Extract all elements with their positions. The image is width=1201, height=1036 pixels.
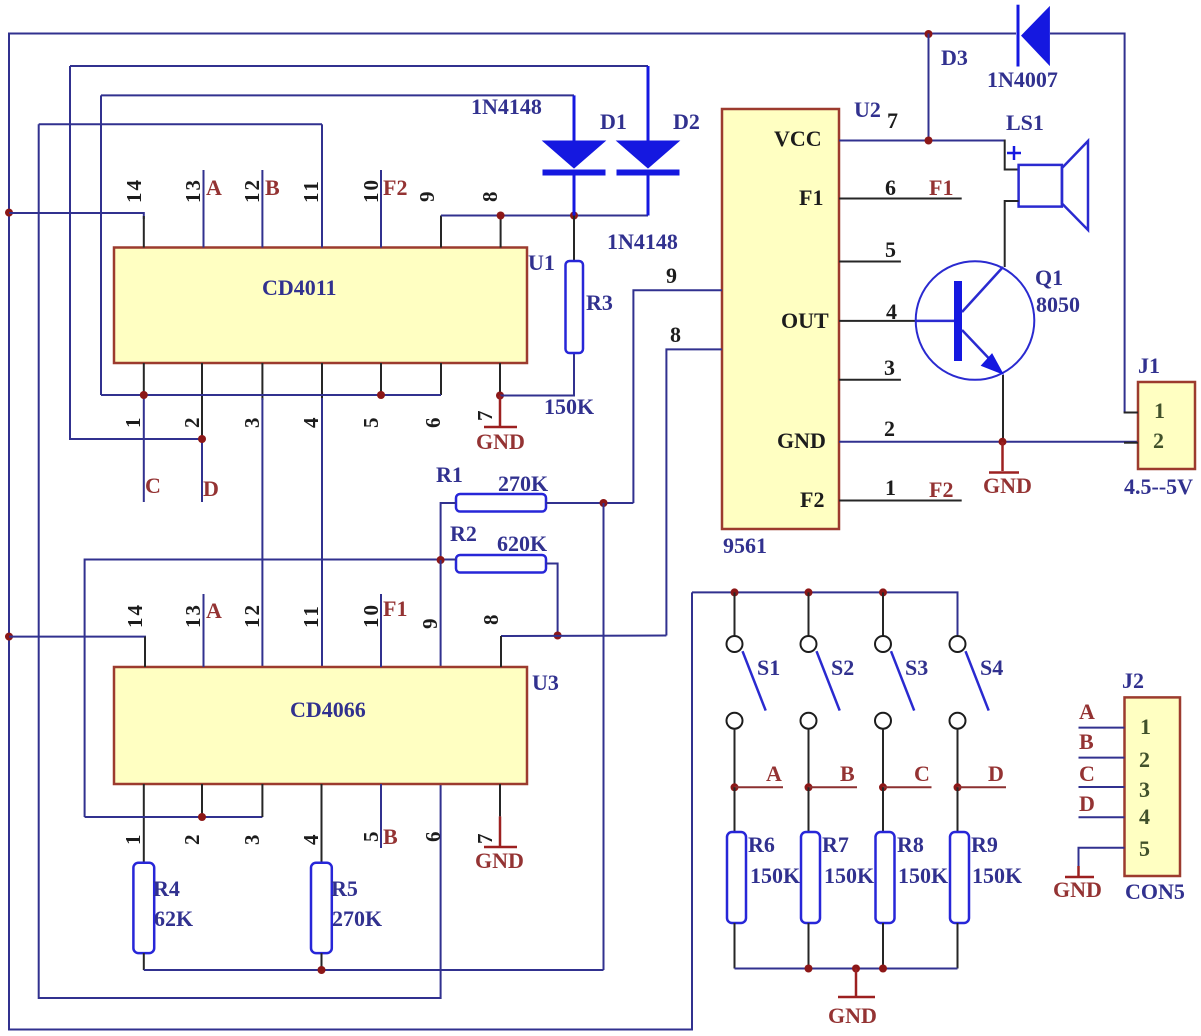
U2 pin 4 OUT wire to Q1 base: [839, 320, 916, 322]
svg-text:U3: U3: [532, 670, 559, 695]
svg-text:A: A: [206, 598, 222, 623]
switch S1: [734, 592, 736, 635]
svg-text:1: 1: [1154, 398, 1165, 423]
svg-text:6: 6: [885, 175, 896, 200]
svg-text:F1: F1: [799, 185, 823, 210]
svg-text:150K: 150K: [972, 863, 1022, 888]
wire net D left vertical and to pin2: [70, 66, 202, 439]
J2 pin 4 stub net D: [1079, 816, 1125, 818]
wire VCC top rail right of D3: [1050, 34, 1125, 413]
svg-text:U1: U1: [528, 250, 555, 275]
svg-text:150K: 150K: [824, 863, 874, 888]
svg-text:A: A: [206, 175, 222, 200]
node stub net C: [883, 786, 932, 788]
wire R2 left net to x=84.6: [85, 560, 456, 818]
svg-text:3: 3: [1139, 777, 1150, 802]
node VCC on left border for U3 pin14: [5, 633, 13, 641]
svg-text:B: B: [840, 761, 855, 786]
ground symbol below switch resistors: [855, 969, 858, 997]
node stub net B: [809, 786, 858, 788]
diode D3 1N4007: [1017, 5, 1020, 67]
node junction pin5: [377, 391, 385, 399]
svg-text:OUT: OUT: [781, 308, 829, 333]
U2 pin 9 wire from R1: [633, 290, 722, 503]
J1 pin 1 stub: [1124, 412, 1138, 414]
node junction net B: [805, 783, 813, 791]
svg-text:F1: F1: [929, 175, 953, 200]
svg-text:D3: D3: [941, 45, 968, 70]
svg-text:Q1: Q1: [1035, 265, 1063, 290]
svg-text:S1: S1: [757, 655, 780, 680]
svg-text:S2: S2: [831, 655, 854, 680]
U3 pin 3 stub: [261, 784, 263, 817]
U3 pin 4 stub to R5: [321, 784, 323, 863]
wire junction down to R4/R5 rail: [603, 503, 605, 970]
wire U1 pin14 to VCC border: [9, 213, 144, 219]
svg-text:R4: R4: [153, 876, 180, 901]
svg-text:6: 6: [421, 830, 445, 843]
svg-text:7: 7: [887, 108, 898, 133]
svg-text:3: 3: [884, 355, 895, 380]
svg-text:2: 2: [884, 416, 895, 441]
U1 pin 11 stub: [321, 124, 323, 247]
switch S3: [882, 592, 884, 635]
node stub net D: [958, 786, 1007, 788]
svg-text:2: 2: [1153, 428, 1164, 453]
svg-text:11: 11: [299, 604, 323, 628]
wire D3 bypass vertical: [928, 34, 930, 141]
wire LS1 bottom terminal to Q1 collector: [1005, 201, 1019, 267]
node junction U1 pin2 net D: [198, 435, 206, 443]
ground symbol at Q1 emitter: [1001, 442, 1004, 471]
node junction U1 pin7 / R3: [496, 392, 504, 400]
node junction D1/R3: [570, 212, 578, 220]
U1 pin 6 stub: [440, 363, 442, 395]
ground symbol at U1 pin7: [499, 396, 502, 427]
svg-text:F2: F2: [929, 477, 953, 502]
U3 pin 5 stub net B: [380, 784, 382, 848]
svg-text:B: B: [265, 175, 280, 200]
svg-text:R6: R6: [748, 832, 775, 857]
svg-text:R9: R9: [971, 832, 998, 857]
IC U3 CD4066 body: [114, 667, 527, 784]
svg-text:12: 12: [240, 603, 264, 628]
resistor R6: [734, 787, 736, 832]
svg-text:10: 10: [359, 603, 383, 628]
wire VCC top rail: [9, 34, 1016, 214]
U3 pin 14 top stub: [144, 637, 146, 667]
J2 pin 5 stub to ground: [1079, 848, 1125, 868]
wire U3 pin14 to VCC border: [9, 637, 145, 641]
svg-text:B: B: [383, 824, 398, 849]
svg-text:2: 2: [1139, 747, 1150, 772]
U1 pin 5 stub: [380, 363, 382, 395]
node junction U3 pin2: [198, 813, 206, 821]
svg-text:150K: 150K: [544, 394, 594, 419]
U1 pin 10 stub net F2: [380, 170, 382, 248]
wire rect4 left vertical down: [39, 124, 441, 998]
svg-text:F2: F2: [383, 175, 407, 200]
wire switch VCC rail y=592.4: [692, 592, 958, 635]
IC U1 CD4011 body: [114, 248, 527, 364]
svg-text:CD4066: CD4066: [290, 697, 366, 722]
svg-text:C: C: [914, 761, 930, 786]
svg-text:GND: GND: [983, 473, 1032, 498]
svg-text:11: 11: [299, 179, 323, 203]
U2 pin 7 VCC wire to speaker: [839, 140, 1005, 142]
svg-text:D2: D2: [673, 109, 700, 134]
node junction pin1: [140, 391, 148, 399]
svg-text:62K: 62K: [154, 906, 193, 931]
resistor R5: [311, 863, 332, 953]
svg-text:4.5--5V: 4.5--5V: [1124, 474, 1193, 499]
svg-text:7: 7: [473, 409, 497, 422]
switch S4: [950, 636, 966, 652]
svg-text:CON5: CON5: [1125, 879, 1185, 904]
svg-text:GND: GND: [475, 848, 524, 873]
svg-text:12: 12: [240, 178, 264, 203]
svg-text:8050: 8050: [1036, 292, 1080, 317]
svg-text:3: 3: [240, 833, 264, 846]
U1 pin 2 stub net D: [201, 363, 203, 439]
svg-text:14: 14: [122, 178, 146, 203]
node VCC on left border for U1 pin14: [5, 209, 13, 217]
svg-text:13: 13: [181, 178, 205, 203]
switch S2: [808, 592, 810, 635]
node junction R5 bottom: [318, 966, 326, 974]
svg-text:R8: R8: [897, 832, 924, 857]
node junctions on switch rail: [731, 588, 739, 596]
svg-text:8: 8: [479, 613, 503, 626]
svg-text:1N4007: 1N4007: [987, 67, 1058, 92]
svg-text:F1: F1: [383, 596, 407, 621]
svg-text:4: 4: [299, 833, 323, 846]
J2 pin 3 stub net C: [1079, 786, 1125, 788]
svg-text:VCC: VCC: [774, 126, 822, 151]
wire U3 pin8 net y=635.5: [501, 635, 666, 638]
wire junction down to U3 pin9: [440, 560, 442, 667]
svg-text:F2: F2: [800, 487, 824, 512]
svg-text:9: 9: [418, 617, 442, 630]
svg-text:C: C: [145, 473, 161, 498]
node VCC junction at U2 pin7: [925, 137, 933, 145]
ground symbol at U3 pin7: [499, 816, 502, 846]
diode D1 1N4148: [573, 95, 576, 141]
J2 pin 2 stub net B: [1079, 757, 1125, 759]
wire U1 pin7 to R3 bottom: [500, 353, 574, 396]
svg-text:LS1: LS1: [1006, 110, 1044, 135]
U1 pin 7 stub: [499, 363, 501, 396]
J2 pin 1 stub net A: [1079, 727, 1125, 729]
svg-text:270K: 270K: [332, 906, 382, 931]
U2 pin 6 stub net F1: [839, 198, 962, 200]
U2 pin 3 stub: [839, 379, 901, 381]
svg-text:2: 2: [180, 833, 204, 846]
svg-text:A: A: [766, 761, 782, 786]
J1 pin 2 stub: [1124, 442, 1138, 444]
svg-text:S4: S4: [980, 655, 1003, 680]
svg-text:10: 10: [359, 178, 383, 203]
svg-text:D: D: [1079, 791, 1095, 816]
U3 pin 2 stub: [201, 784, 203, 817]
resistor R3: [573, 216, 575, 262]
svg-text:R2: R2: [450, 521, 477, 546]
node junction R2 right / U3 pin8: [554, 632, 562, 640]
U2 pin 2 GND wire to J1: [839, 441, 1138, 443]
svg-text:5: 5: [359, 830, 383, 843]
U3 pin 7 stub: [499, 784, 501, 816]
wire R2 right down to U3 pin8 net: [546, 564, 558, 636]
wire rect4 top y=124 to U1 pin11: [39, 123, 322, 125]
svg-text:6: 6: [421, 416, 445, 429]
svg-text:GND: GND: [828, 1003, 877, 1028]
U2 pin 1 stub net F2: [839, 500, 962, 502]
svg-text:9: 9: [415, 190, 439, 203]
wire U3 pins 2-3 net y=817: [85, 816, 263, 818]
U3 pin 13 stub net A: [203, 594, 205, 667]
U2 pin 8 wire down to U3 pin8 net: [666, 349, 722, 635]
svg-text:1N4148: 1N4148: [607, 229, 678, 254]
node junction R1 right: [600, 499, 608, 507]
svg-text:GND: GND: [1053, 877, 1102, 902]
wire R1 right to U2 pin9 riser: [546, 502, 633, 504]
svg-text:D1: D1: [600, 109, 627, 134]
resistor R8: [882, 787, 884, 832]
U1 pin 3 stub down to U3 pin12: [261, 363, 263, 400]
svg-text:620K: 620K: [497, 531, 547, 556]
svg-text:8: 8: [478, 190, 502, 203]
U1 pin 9 stub: [440, 216, 442, 248]
svg-text:A: A: [1079, 699, 1095, 724]
node junction net A: [731, 783, 739, 791]
svg-text:1: 1: [121, 833, 145, 846]
wire resistor bottom GND rail y=968.5: [735, 968, 958, 970]
svg-text:1: 1: [885, 475, 896, 500]
wire U1 pins 1,5,6 oscillator net y=395: [101, 394, 441, 396]
svg-text:B: B: [1079, 729, 1094, 754]
ground symbol at J2 pin5: [1077, 866, 1080, 876]
IC U2 9561 body: [722, 109, 839, 529]
svg-text:R3: R3: [586, 290, 613, 315]
svg-text:3: 3: [240, 416, 264, 429]
svg-text:R7: R7: [822, 832, 849, 857]
svg-text:5: 5: [359, 416, 383, 429]
svg-text:4: 4: [1139, 804, 1150, 829]
U1 pin 13 stub net A: [203, 170, 205, 248]
resistor R7: [808, 787, 810, 832]
node junction pin8: [497, 212, 505, 220]
svg-text:GND: GND: [476, 429, 525, 454]
node junction Q1 emitter GND: [999, 438, 1007, 446]
svg-text:9: 9: [666, 263, 677, 288]
U1 pin 4 stub down to U3 pin11: [321, 363, 323, 400]
U2 pin 5 stub: [839, 261, 901, 263]
svg-text:270K: 270K: [498, 471, 548, 496]
svg-text:J1: J1: [1138, 353, 1160, 378]
node VCC junction at top: [925, 30, 933, 38]
wire U1 pins 9-8 to diode junction: [441, 215, 648, 217]
U1 pin 12 stub net B: [261, 170, 263, 248]
node junction R1/R2 left: [437, 556, 445, 564]
U3 pin 1 stub to R4: [143, 784, 145, 863]
svg-text:4: 4: [299, 416, 323, 429]
wire R1 left down to R2 left: [441, 503, 456, 560]
wire left border VCC down: [9, 213, 692, 1030]
node junctions on GND rail: [805, 965, 813, 973]
node junction net D: [954, 783, 962, 791]
svg-text:13: 13: [181, 603, 205, 628]
U3 pin 8 stub: [500, 636, 502, 667]
svg-text:C: C: [1079, 761, 1095, 786]
svg-text:150K: 150K: [898, 863, 948, 888]
transistor Q1 8050: [916, 261, 1035, 380]
diode D2 1N4148: [647, 66, 650, 141]
wire net D rect: top y=66: [70, 65, 648, 67]
svg-text:CD4011: CD4011: [262, 275, 337, 300]
svg-text:2: 2: [180, 416, 204, 429]
svg-text:7: 7: [473, 832, 497, 845]
wire R4/R5 bottom rail y=970: [143, 953, 145, 970]
U1 pin 14 top stub: [143, 216, 145, 248]
svg-text:D: D: [203, 476, 219, 501]
svg-text:D: D: [988, 761, 1004, 786]
U1 pin 1 bottom stub net C: [143, 363, 145, 395]
svg-text:S3: S3: [905, 655, 928, 680]
wire net osc rect3 top y=95: [101, 94, 574, 96]
U1 pin 8 stub: [500, 216, 502, 248]
svg-text:U2: U2: [854, 97, 881, 122]
svg-text:1N4148: 1N4148: [471, 94, 542, 119]
svg-text:5: 5: [1139, 836, 1150, 861]
svg-text:R1: R1: [436, 462, 463, 487]
svg-text:4: 4: [886, 299, 897, 324]
svg-text:GND: GND: [777, 428, 826, 453]
svg-text:1: 1: [121, 416, 145, 429]
svg-text:R5: R5: [331, 876, 358, 901]
resistor R9: [957, 787, 959, 832]
node junction net C: [879, 783, 887, 791]
svg-text:1: 1: [1140, 714, 1151, 739]
svg-text:14: 14: [123, 603, 147, 628]
node stub net A: [735, 786, 784, 788]
svg-text:9561: 9561: [723, 533, 767, 558]
resistor R4: [133, 863, 154, 953]
svg-text:5: 5: [885, 237, 896, 262]
svg-text:150K: 150K: [750, 863, 800, 888]
svg-text:J2: J2: [1122, 668, 1144, 693]
U3 pin 10 stub net F1: [380, 594, 382, 667]
svg-text:8: 8: [670, 322, 681, 347]
wire rect3 left vertical: [100, 95, 102, 395]
